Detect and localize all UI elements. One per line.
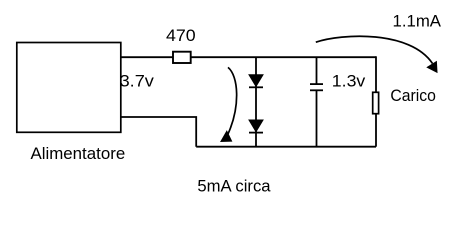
wire top: resistor to load branch <box>191 56 376 58</box>
current arrow 5mA <box>221 67 237 141</box>
current arrow 1.1mA <box>316 36 437 72</box>
diode branch wire <box>255 57 257 147</box>
svg-text:3.7v: 3.7v <box>120 73 155 91</box>
load branch wire bottom <box>375 114 377 147</box>
capacitor branch wire bottom <box>316 90 318 146</box>
svg-text:Alimentatore: Alimentatore <box>31 145 126 163</box>
svg-text:1.3v: 1.3v <box>332 73 366 91</box>
diode D2 <box>249 120 263 133</box>
svg-text:1.1mA: 1.1mA <box>393 13 442 31</box>
capacitor branch wire top <box>316 57 318 84</box>
wire bottom rail <box>196 146 376 148</box>
svg-text:470: 470 <box>166 27 196 45</box>
svg-text:5mA circa: 5mA circa <box>197 178 270 196</box>
load branch wire top <box>375 56 377 92</box>
diode D1 <box>249 75 263 88</box>
wire bottom: box to step corner <box>121 117 196 147</box>
resistor R1 470 <box>173 52 191 63</box>
svg-text:Carico: Carico <box>390 87 436 105</box>
load resistor R2 Carico <box>373 92 379 113</box>
wire top: box to resistor <box>121 56 173 58</box>
power supply box U1 <box>17 43 121 133</box>
capacitor C1 <box>310 84 323 90</box>
